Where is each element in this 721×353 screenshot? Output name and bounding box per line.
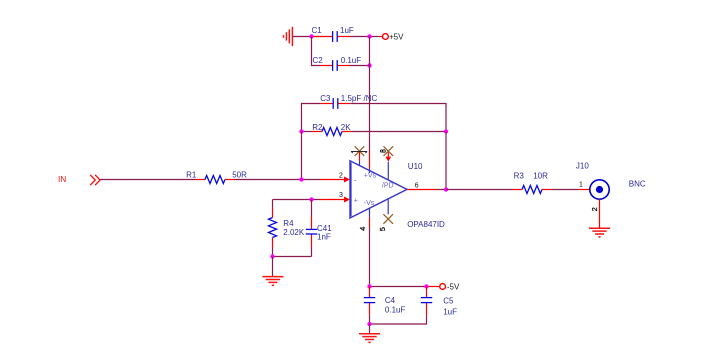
junction bottom node <box>367 322 371 326</box>
+5V power terminal <box>383 32 405 41</box>
wire C2 right pin to +5V column <box>350 65 370 67</box>
svg-text:-: - <box>354 175 357 184</box>
svg-text:1.5pF /NC: 1.5pF /NC <box>341 94 378 103</box>
wire bottom node to ground <box>369 324 371 333</box>
J10 pin 1 lead <box>578 182 590 190</box>
wire node A down to C2 row <box>312 37 321 66</box>
pin 8 no-connect <box>380 146 393 180</box>
resistor R3 <box>512 172 552 194</box>
svg-text:C4: C4 <box>385 296 396 305</box>
capacitor C2 <box>313 56 362 71</box>
junction pin3 node <box>309 197 313 201</box>
svg-text:1: 1 <box>579 182 583 189</box>
ground (under J10) <box>589 228 610 237</box>
svg-text:2.02K: 2.02K <box>283 228 305 237</box>
junction node A <box>309 34 313 38</box>
svg-text:R2: R2 <box>312 123 323 132</box>
wire pin6 to output node <box>437 189 446 191</box>
svg-text:R1: R1 <box>186 170 197 179</box>
junction R2 left <box>299 129 303 133</box>
svg-text:C5: C5 <box>443 297 454 306</box>
ground (under C4) <box>359 334 380 343</box>
wire C3 row right <box>350 104 446 132</box>
svg-text:6: 6 <box>415 183 419 190</box>
svg-text:C3: C3 <box>320 94 331 103</box>
svg-text:0.1uF: 0.1uF <box>385 306 406 315</box>
svg-text:C1: C1 <box>312 26 323 35</box>
wire +5V column down to op-amp pin 7 <box>369 37 371 151</box>
svg-text:2K: 2K <box>341 123 351 132</box>
pin 3 lead <box>321 192 350 202</box>
wire C41 bottom <box>311 247 313 257</box>
wire R4 bottom <box>272 248 274 257</box>
wire C4 node to C5 node <box>370 286 427 288</box>
svg-text:IN: IN <box>58 174 66 184</box>
svg-text:+: + <box>354 197 358 204</box>
junction C5 top <box>424 284 428 288</box>
wire R4 node to ground <box>272 257 274 277</box>
svg-text:2: 2 <box>590 207 599 211</box>
wire R2 row left <box>302 131 313 133</box>
wire right feedback column down to output node <box>445 132 447 190</box>
junction output node <box>444 187 448 191</box>
wire left feedback column down to input node <box>301 132 303 180</box>
port IN <box>58 174 100 185</box>
wire C5 node to -5V terminal <box>427 286 440 288</box>
wire R1 to op-amp pin 2 <box>235 179 321 181</box>
wire R4 to C41 bottom row <box>273 256 312 258</box>
svg-text:2: 2 <box>339 173 343 180</box>
op-amp U1 body <box>350 161 445 230</box>
svg-text:+Vs: +Vs <box>364 172 377 179</box>
wire output node to R3 <box>446 189 512 191</box>
capacitor C3 <box>320 94 377 109</box>
pin 7 lead (+Vs) <box>369 151 371 174</box>
wire node A to C1 left pin <box>312 36 320 38</box>
svg-text:/PD: /PD <box>382 182 394 189</box>
svg-text:+5V: +5V <box>389 32 404 41</box>
svg-text:R3: R3 <box>514 172 525 181</box>
connector J10 BNC <box>576 162 646 200</box>
pin 1 no-connect <box>351 146 367 165</box>
svg-text:4: 4 <box>358 227 367 231</box>
resistor R1 <box>186 170 247 183</box>
J10 pin 2 lead <box>590 199 600 228</box>
svg-text:1uF: 1uF <box>443 307 457 316</box>
svg-text:J10: J10 <box>576 162 589 171</box>
pin 4 lead (-Vs) <box>358 208 370 231</box>
capacitor C4 <box>364 287 406 316</box>
wire C41 top <box>311 200 313 217</box>
svg-text:U10: U10 <box>408 162 423 171</box>
wire C4 bottom <box>369 315 371 324</box>
svg-text:10R: 10R <box>533 172 548 181</box>
svg-text:OPA847ID: OPA847ID <box>407 220 445 229</box>
-5V power terminal <box>440 282 460 291</box>
junction input node <box>299 177 303 181</box>
wire node B to +5V terminal <box>370 36 383 38</box>
wire IN to R1 <box>101 179 196 181</box>
resistor R2 <box>312 123 352 136</box>
junction R4 bottom <box>270 254 274 258</box>
junction C4 top <box>367 284 371 288</box>
wire ground to node A <box>292 36 311 38</box>
junction R2 right <box>444 129 448 133</box>
capacitor C41 <box>306 217 332 247</box>
wire C1 right pin to node B <box>351 36 370 38</box>
ground (top left, rotated) <box>284 27 293 46</box>
wire pin4 down to C4 node <box>369 228 371 286</box>
svg-text:5: 5 <box>378 227 387 231</box>
svg-text:-5V: -5V <box>447 282 460 291</box>
junction C2 right <box>367 63 371 67</box>
wire C5 bottom to node <box>370 315 427 324</box>
junction node B <box>367 34 371 38</box>
wire R2 row right <box>352 131 446 133</box>
pin 5 no-connect <box>378 199 393 231</box>
capacitor C5 <box>421 287 457 317</box>
svg-text:3: 3 <box>339 192 343 199</box>
svg-text:50R: 50R <box>232 170 247 179</box>
wire R3 to J10 pin 1 <box>552 189 578 191</box>
pin 2 lead <box>321 173 350 183</box>
wire R4 branch top <box>272 200 274 208</box>
svg-text:-Vs: -Vs <box>364 200 375 207</box>
svg-text:1nF: 1nF <box>317 233 331 242</box>
svg-text:C2: C2 <box>313 56 324 65</box>
wire pin3 row from R4 corner <box>273 199 321 201</box>
svg-text:0.1uF: 0.1uF <box>341 56 362 65</box>
svg-text:1uF: 1uF <box>340 26 354 35</box>
resistor R4 <box>269 208 305 248</box>
wire C3 row left <box>302 104 321 132</box>
svg-text:BNC: BNC <box>629 180 646 189</box>
capacitor C1 <box>312 26 354 42</box>
pin 6 output lead <box>407 183 437 190</box>
ground (under R4) <box>262 277 283 286</box>
